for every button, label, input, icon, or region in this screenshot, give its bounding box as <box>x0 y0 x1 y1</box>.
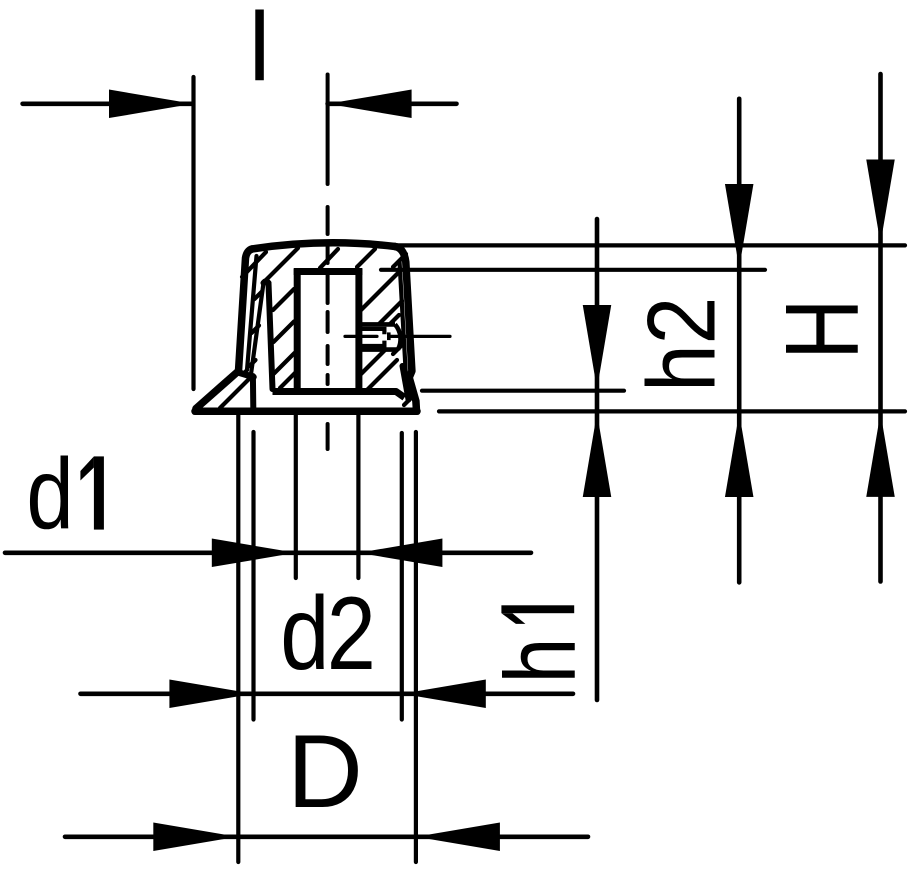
right recess wedge edge <box>403 366 409 400</box>
dimension h2: line <box>737 99 742 583</box>
extension line: bore top face / h2 top (y=269.8) <box>381 268 765 272</box>
knob cross-section: outer profile <box>195 243 417 412</box>
label d1 <box>26 438 73 550</box>
extension line: D right (x=415.9) <box>414 432 418 862</box>
under-recess left leg <box>251 283 264 376</box>
svg-text:l: l <box>249 0 271 101</box>
dimension H: arrows <box>866 160 895 497</box>
knob bottom edge <box>195 408 417 416</box>
extension line: d2 right (x=401.8) <box>400 433 404 720</box>
extension line: d1 left (x=295.8) <box>294 413 298 578</box>
bore right wall <box>355 269 362 392</box>
dimension H: line <box>878 74 883 582</box>
extension line: knob top / H top (y=245.4) <box>393 243 905 247</box>
label D <box>287 713 363 829</box>
label H (rotated) <box>764 299 880 360</box>
svg-text:h: h <box>485 638 596 684</box>
dimension d1: line <box>5 550 531 555</box>
dimension h1: line <box>595 219 600 700</box>
dimension l: line <box>23 102 457 107</box>
knob inner thin profile lines <box>243 256 406 376</box>
dimension l: arrows <box>109 90 412 119</box>
pointer flare / recess junction ridge <box>239 373 254 378</box>
svg-text:h2: h2 <box>628 297 736 392</box>
dimension D: arrows <box>153 823 500 852</box>
screw slot inner face <box>387 332 391 340</box>
left rim inner line <box>243 256 257 375</box>
label l <box>249 0 271 101</box>
bore left wall <box>294 269 301 392</box>
screw bottom edge <box>359 347 398 352</box>
under-recess apex arc <box>264 281 269 283</box>
extension line: D left (x=238.3) <box>236 413 240 862</box>
recess outer wall vertical (left, d2 reference) <box>250 376 256 408</box>
knob top crown edge <box>252 243 395 249</box>
knob pointer flare left edge <box>196 371 239 409</box>
dimension h1: arrows <box>583 305 612 497</box>
dimension h2: arrows <box>725 184 754 497</box>
knob top-right corner and right edge <box>395 247 416 410</box>
extension line: hub bottom face / h1 top (y=390.7) <box>422 389 624 393</box>
set screw <box>359 324 401 349</box>
right rim inner line <box>400 261 406 374</box>
screw axis centerline <box>345 335 450 338</box>
svg-text:d: d <box>26 438 73 550</box>
under-recess right leg / hub outer wall <box>269 283 273 389</box>
knob inner bore (counterbore) <box>273 269 405 398</box>
screw head arc <box>395 324 401 349</box>
label d1 digit 1 <box>80 456 104 529</box>
hub bottom face <box>273 392 405 398</box>
svg-text:d2: d2 <box>280 576 373 691</box>
dimension d2: arrows <box>169 680 485 709</box>
dimension d1: arrows <box>212 539 443 568</box>
label h1 digit 1 (rotated) <box>501 605 574 624</box>
dimension D: line <box>65 834 588 839</box>
label d2 <box>280 576 373 691</box>
label h2 (rotated) <box>628 297 736 392</box>
svg-text:D: D <box>287 713 363 829</box>
extension line: knob bottom (y=411.4) <box>439 409 905 413</box>
vertical centerline of knob (dash-dot) <box>326 75 330 450</box>
svg-text:H: H <box>764 299 880 360</box>
extension line: d1 right (x=358.4) <box>356 413 360 578</box>
extension line: d2 left (x=253.5) <box>251 432 255 720</box>
dimension d2: line <box>81 691 574 696</box>
screw top edge <box>359 322 395 327</box>
section hatching <box>220 248 413 408</box>
screw slot lower lip <box>360 341 385 346</box>
screw slot upper lip <box>360 329 385 334</box>
knob top-left corner and left edge <box>239 249 253 371</box>
label h1 (rotated) <box>485 638 596 684</box>
extension line: pointer tip / l left (x=193.5) <box>191 77 195 389</box>
bore top face <box>294 268 363 275</box>
